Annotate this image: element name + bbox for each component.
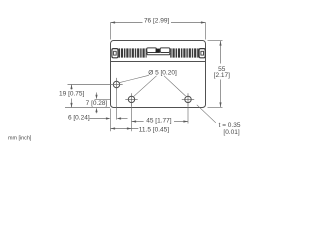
svg-text:6 [0.24]: 6 [0.24] bbox=[68, 114, 90, 121]
leader lines to holes (diameter note) bbox=[120, 75, 186, 97]
antenna center loop left box bbox=[147, 48, 157, 53]
antenna center loop right box bbox=[160, 48, 170, 53]
hole A (top-left) bbox=[113, 78, 119, 91]
dimension 55 right bbox=[208, 41, 223, 108]
tag body outline bbox=[111, 41, 206, 108]
svg-text:19 [0.75]: 19 [0.75] bbox=[59, 91, 84, 98]
svg-text:mm [inch]: mm [inch] bbox=[8, 136, 32, 142]
dimension 19 left bbox=[68, 85, 123, 108]
dimension 45 bottom bbox=[132, 121, 189, 123]
svg-text:[2.17]: [2.17] bbox=[214, 72, 230, 79]
svg-text:[0.01]: [0.01] bbox=[223, 129, 239, 136]
bottom extension lines bbox=[111, 91, 189, 131]
antenna right bars bbox=[170, 48, 198, 57]
dimension 7 left bbox=[95, 93, 111, 114]
dimension 76 top bbox=[111, 23, 206, 40]
bottom edge extension to the left bbox=[65, 107, 110, 109]
svg-text:Ø 5 [0.20]: Ø 5 [0.20] bbox=[148, 69, 177, 76]
leader t thickness bbox=[197, 105, 216, 123]
hole C (bottom-right) bbox=[182, 93, 194, 105]
svg-text:76 [2.99]: 76 [2.99] bbox=[144, 17, 169, 24]
lower trace U bbox=[147, 53, 170, 55]
dimension 6 bottom bbox=[90, 118, 128, 120]
svg-text:t = 0.35: t = 0.35 bbox=[219, 122, 241, 129]
svg-text:11.5 [0.45]: 11.5 [0.45] bbox=[139, 127, 169, 134]
antenna left bars bbox=[119, 48, 147, 57]
extension at holes B level bbox=[95, 99, 111, 101]
svg-text:7 [0.28]: 7 [0.28] bbox=[86, 100, 108, 107]
antenna right pad bbox=[199, 49, 205, 58]
dimension 11.5 bottom bbox=[111, 128, 139, 130]
chip bbox=[156, 49, 160, 53]
antenna left pad bbox=[112, 49, 118, 58]
hole B (bottom-left) bbox=[125, 93, 137, 105]
svg-text:45 [1.77]: 45 [1.77] bbox=[146, 117, 171, 124]
separator line bbox=[111, 61, 206, 63]
